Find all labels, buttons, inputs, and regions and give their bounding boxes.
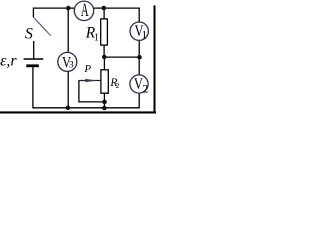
wire switch to battery [33, 41, 35, 59]
wiper arrowhead [85, 79, 97, 82]
wire main loop (top wire, right V1/V2 branch, inner bottom wire, battery leg) [33, 8, 139, 108]
wiper arm P [79, 80, 101, 82]
junction node R1 bottom / R2 top [102, 55, 107, 60]
voltmeter V1 [130, 22, 148, 40]
junction node bottom wire at R2 branch [102, 106, 107, 111]
voltmeter V3 [58, 52, 77, 71]
frame bottom line [0, 111, 156, 113]
frame right bar [154, 5, 156, 113]
resistor R1 [101, 19, 108, 45]
wiper short wire [79, 80, 105, 102]
svg-text:1: 1 [141, 29, 147, 41]
svg-text:P: P [83, 63, 91, 75]
junction node mid wire at V1 branch [137, 55, 142, 60]
ammeter A [74, 1, 93, 20]
svg-text:2: 2 [142, 82, 148, 96]
svg-text:ε,r: ε,r [0, 53, 17, 70]
wire R1 branch [103, 8, 105, 57]
battery long plate [24, 58, 44, 60]
battery short plate [26, 64, 39, 67]
junction node on top wire at R1 branch [102, 6, 107, 11]
wire mid (R1 bottom to V1 branch) [104, 56, 139, 58]
wire R2 bottom stem [103, 93, 105, 108]
resistor R2 (rheostat) [101, 70, 108, 93]
wire R2 stem [103, 57, 105, 70]
wire V3 branch [67, 8, 69, 108]
voltmeter V2 [130, 75, 148, 93]
svg-text:3: 3 [69, 61, 74, 71]
svg-text:S: S [25, 26, 33, 43]
junction node bottom wire at V3 branch [66, 106, 71, 111]
junction node on top wire at V3 branch [66, 6, 71, 11]
svg-text:1: 1 [94, 32, 99, 43]
svg-text:2: 2 [116, 81, 120, 90]
switch S blade [34, 17, 51, 36]
junction node wiper wire joins R2 stem [102, 100, 107, 105]
svg-text:A: A [81, 2, 89, 22]
